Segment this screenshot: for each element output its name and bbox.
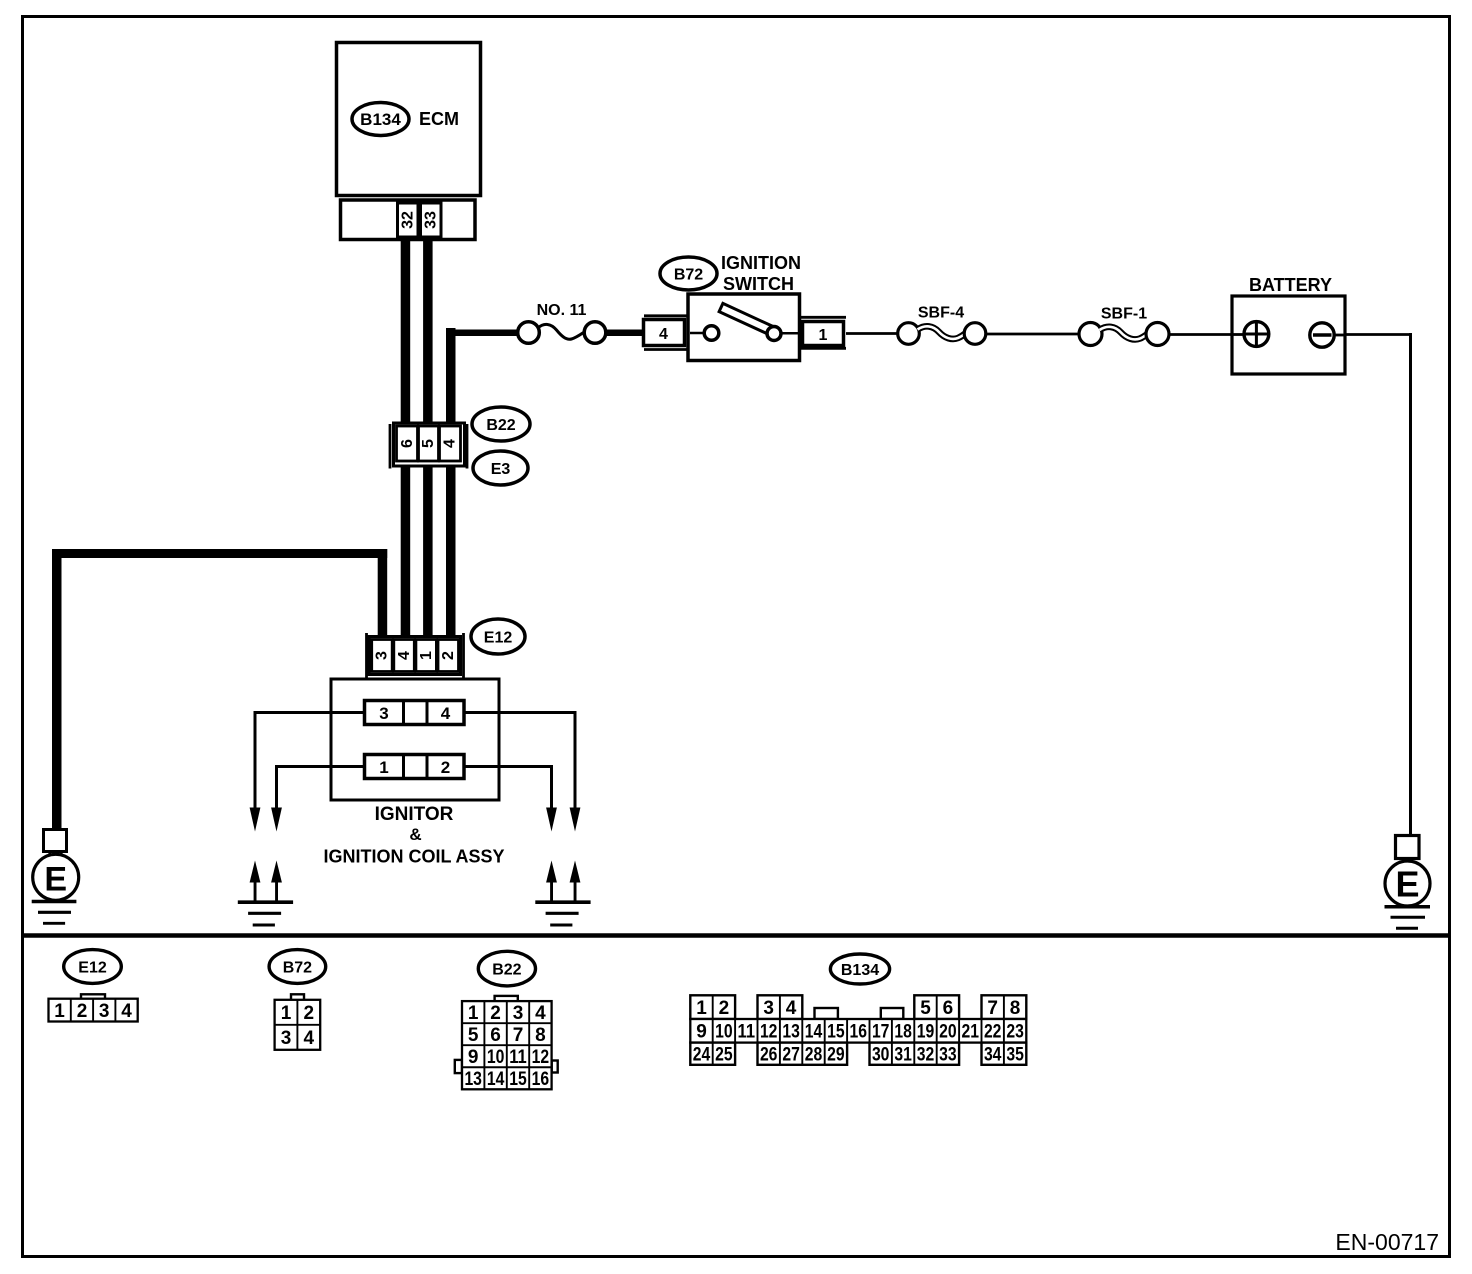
svg-text:8: 8	[535, 1025, 546, 1046]
pin 4 cell	[394, 640, 415, 672]
connector B22/E3 bracket left	[389, 424, 392, 469]
svg-text:28: 28	[805, 1045, 823, 1066]
battery negative terminal	[1310, 323, 1334, 347]
switch contact stub left	[690, 332, 705, 335]
svg-text:SBF-4: SBF-4	[918, 305, 964, 322]
pin 4 cell	[440, 426, 461, 461]
svg-text:3: 3	[513, 1003, 524, 1024]
svg-text:6: 6	[399, 439, 416, 448]
svg-text:2: 2	[719, 998, 730, 1019]
svg-text:IGNITION COIL ASSY: IGNITION COIL ASSY	[323, 847, 504, 867]
wire fuse NO.11 to ignition switch pin4	[604, 330, 644, 337]
fuse SBF-1 right terminal	[1146, 323, 1169, 346]
svg-text:33: 33	[423, 211, 440, 229]
pin 1 cell	[416, 640, 437, 672]
ignitor terminal strip 1-2	[365, 755, 465, 779]
wire SBF-4 to SBF-1	[986, 333, 1079, 336]
svg-text:1: 1	[696, 998, 707, 1019]
connector B22/E3 body	[394, 423, 465, 466]
svg-text:29: 29	[827, 1045, 845, 1066]
separator line between diagram and connector chart	[21, 933, 1449, 938]
svg-text:2: 2	[440, 651, 457, 660]
pin 32 cell	[398, 203, 419, 237]
svg-text:IGNITION: IGNITION	[721, 253, 801, 273]
svg-text:E3: E3	[491, 461, 511, 478]
connector oval E12	[471, 619, 525, 654]
svg-text:9: 9	[468, 1047, 479, 1068]
svg-text:12: 12	[760, 1022, 778, 1043]
down arrowhead left outer	[250, 808, 261, 832]
svg-text:1: 1	[819, 327, 828, 344]
svg-text:27: 27	[782, 1045, 800, 1066]
svg-text:18: 18	[894, 1022, 912, 1043]
ground symbol left pair	[238, 900, 293, 904]
svg-text:2: 2	[77, 1001, 88, 1022]
svg-text:22: 22	[984, 1022, 1002, 1043]
svg-text:20: 20	[939, 1022, 957, 1043]
svg-text:4: 4	[396, 651, 413, 660]
up arrow left inner	[271, 861, 282, 883]
wire battery negative to frame right	[1334, 334, 1345, 337]
connector chart oval E12	[64, 950, 122, 984]
wire switch pin1 to SBF-4	[846, 332, 898, 335]
svg-text:16: 16	[850, 1022, 868, 1043]
svg-text:B134: B134	[360, 110, 401, 129]
down arrowhead left inner	[271, 808, 282, 832]
svg-text:E: E	[44, 861, 67, 899]
switch lever	[719, 303, 773, 334]
svg-text:7: 7	[987, 998, 998, 1019]
svg-text:32: 32	[400, 211, 417, 229]
connector oval E3	[473, 451, 528, 485]
svg-text:26: 26	[760, 1045, 778, 1066]
up arrow left outer	[250, 861, 261, 883]
switch contact circle left	[704, 326, 719, 341]
svg-text:8: 8	[1010, 998, 1021, 1019]
svg-text:B72: B72	[674, 267, 703, 284]
svg-text:33: 33	[939, 1045, 957, 1066]
pin 33 cell	[421, 203, 442, 237]
battery positive terminal	[1244, 322, 1269, 347]
down arrowhead right inner	[546, 808, 557, 832]
wire battery to right ground (vertical)	[1409, 333, 1412, 836]
ground symbol right pair	[535, 900, 590, 904]
ignition switch S1 body	[688, 294, 800, 361]
pin 3 cell	[372, 640, 393, 672]
wire ignitor pin1 to left ground arrow	[277, 767, 365, 813]
svg-text:4: 4	[786, 998, 797, 1019]
svg-text:1: 1	[54, 1001, 65, 1022]
svg-text:31: 31	[894, 1045, 912, 1066]
svg-text:SWITCH: SWITCH	[723, 274, 794, 294]
fuse NO.11 left terminal	[518, 322, 540, 344]
connector strip B134 under ECM	[341, 200, 476, 240]
svg-text:4: 4	[441, 704, 451, 723]
pin 6 cell	[397, 426, 418, 461]
svg-text:10: 10	[715, 1022, 733, 1043]
svg-text:4: 4	[121, 1001, 132, 1022]
svg-text:E: E	[1395, 864, 1419, 905]
connector chart oval B22	[478, 951, 535, 986]
ECM U1 box	[337, 43, 481, 196]
ground E circle right	[1385, 861, 1430, 906]
svg-text:5: 5	[920, 998, 931, 1019]
ignitor terminal strip 3-4	[365, 701, 465, 725]
wire ECM pin32 to E12 pin4 (vertical)	[401, 237, 411, 674]
svg-text:32: 32	[917, 1045, 935, 1066]
svg-text:12: 12	[532, 1047, 550, 1068]
ignition switch pin 1 box	[803, 322, 844, 346]
svg-text:34: 34	[984, 1045, 1002, 1066]
svg-text:7: 7	[513, 1025, 524, 1046]
ground hatch left	[32, 900, 77, 903]
fuse NO.11 element	[538, 324, 585, 339]
connector chart oval B72	[269, 950, 326, 984]
connector E12 bracket right	[462, 633, 465, 678]
svg-text:&: &	[409, 825, 421, 844]
svg-text:3: 3	[763, 998, 774, 1019]
wire fuse NO.11 branch horizontal	[446, 330, 519, 337]
svg-text:B134: B134	[841, 962, 879, 979]
svg-text:NO. 11: NO. 11	[537, 302, 587, 319]
ignition switch pin1 shell lines	[800, 316, 846, 319]
svg-text:11: 11	[509, 1047, 527, 1068]
svg-text:25: 25	[715, 1045, 733, 1066]
fuse SBF-4 left terminal	[898, 323, 920, 345]
pin 2 cell	[438, 640, 459, 672]
wire left ground horizontal run	[52, 549, 387, 558]
svg-text:13: 13	[464, 1069, 482, 1090]
svg-text:2: 2	[304, 1003, 315, 1024]
svg-text:3: 3	[281, 1028, 292, 1049]
connector chart E12 pin grid	[49, 994, 138, 1022]
svg-text:BATTERY: BATTERY	[1249, 275, 1332, 295]
svg-text:19: 19	[917, 1022, 935, 1043]
svg-text:35: 35	[1006, 1045, 1024, 1066]
ignition switch pin 4 box	[644, 320, 685, 346]
svg-text:21: 21	[962, 1022, 980, 1043]
ground hatch right	[1385, 905, 1431, 909]
svg-text:23: 23	[1006, 1022, 1024, 1043]
up arrow right inner	[546, 861, 557, 883]
fuse SBF-4 element	[918, 326, 967, 339]
svg-text:1: 1	[418, 651, 435, 660]
wire battery internal left	[1232, 333, 1245, 336]
svg-text:1: 1	[379, 758, 388, 777]
svg-text:IGNITOR: IGNITOR	[375, 804, 454, 825]
up arrow right outer	[570, 861, 581, 883]
svg-text:1: 1	[468, 1003, 479, 1024]
battery BT1 box	[1232, 296, 1345, 374]
wire left ground vertical drop to E12 pin3	[378, 549, 388, 674]
svg-text:B72: B72	[283, 960, 312, 977]
left ground terminal block	[44, 830, 67, 852]
connector oval B72 (at switch)	[660, 257, 717, 290]
svg-text:24: 24	[693, 1045, 711, 1066]
svg-text:6: 6	[943, 998, 954, 1019]
connector E12 bracket left	[365, 633, 368, 678]
wire left ground vertical to ground E	[52, 549, 62, 830]
connector chart B72 pin grid	[275, 994, 321, 1050]
ignition switch pin4 shell lines	[644, 314, 688, 317]
svg-text:1: 1	[281, 1003, 292, 1024]
wire fuse NO.11 branch vertical to E12 pin2	[446, 328, 456, 674]
fuse NO.11 right terminal	[584, 322, 606, 344]
svg-text:E12: E12	[78, 960, 107, 977]
svg-text:11: 11	[738, 1022, 756, 1043]
connector chart B134 pin grid	[690, 995, 1026, 1065]
svg-text:15: 15	[827, 1022, 845, 1043]
svg-text:3: 3	[99, 1001, 110, 1022]
svg-text:3: 3	[379, 704, 388, 723]
svg-text:ECM: ECM	[419, 109, 459, 129]
connector oval B22	[472, 407, 530, 441]
wire ignitor pin3 to left ground arrow	[255, 713, 365, 813]
svg-text:4: 4	[659, 326, 668, 343]
fuse SBF-1 left terminal	[1079, 323, 1102, 346]
down arrowhead right outer	[570, 808, 581, 832]
ignitor box U2	[331, 679, 499, 800]
svg-text:E12: E12	[484, 630, 513, 647]
connector chart oval B134	[830, 954, 889, 984]
svg-text:EN-00717: EN-00717	[1335, 1229, 1439, 1255]
switch contact stub right	[781, 332, 799, 335]
svg-text:9: 9	[696, 1022, 707, 1043]
svg-text:3: 3	[374, 651, 391, 660]
svg-text:15: 15	[509, 1069, 527, 1090]
svg-text:B22: B22	[492, 962, 521, 979]
svg-text:17: 17	[872, 1022, 890, 1043]
svg-text:6: 6	[490, 1025, 501, 1046]
wire SBF-1 to battery	[1169, 333, 1232, 336]
wire ECM pin33 to E12 pin1 (vertical)	[423, 237, 433, 674]
svg-text:5: 5	[468, 1025, 479, 1046]
wire ignitor pin4 to right ground arrow	[464, 713, 575, 813]
svg-text:10: 10	[487, 1047, 505, 1068]
ground E circle left	[33, 854, 79, 900]
svg-text:B22: B22	[486, 417, 515, 434]
wire battery to right ground (horizontal)	[1345, 333, 1412, 336]
connector chart B22 pin grid	[455, 996, 558, 1090]
fuse SBF-1 element	[1100, 327, 1149, 340]
svg-text:16: 16	[532, 1069, 550, 1090]
svg-text:4: 4	[304, 1028, 315, 1049]
svg-text:14: 14	[805, 1022, 823, 1043]
switch contact circle right	[767, 327, 781, 341]
right ground terminal block	[1396, 836, 1420, 859]
svg-text:5: 5	[420, 439, 437, 448]
svg-text:30: 30	[872, 1045, 890, 1066]
svg-text:SBF-1: SBF-1	[1101, 306, 1147, 323]
connector E12 body	[369, 637, 461, 675]
svg-text:13: 13	[782, 1022, 800, 1043]
connector oval B134 (at ECM)	[352, 103, 409, 136]
fuse SBF-4 right terminal	[964, 323, 986, 345]
svg-text:14: 14	[487, 1069, 505, 1090]
svg-text:2: 2	[490, 1003, 501, 1024]
connector B22/E3 bracket right	[466, 424, 469, 469]
pin 5 cell	[419, 426, 439, 461]
svg-text:4: 4	[441, 439, 458, 448]
svg-text:2: 2	[441, 758, 450, 777]
wire ignitor pin2 to right ground arrow	[464, 767, 552, 813]
svg-text:4: 4	[535, 1003, 546, 1024]
